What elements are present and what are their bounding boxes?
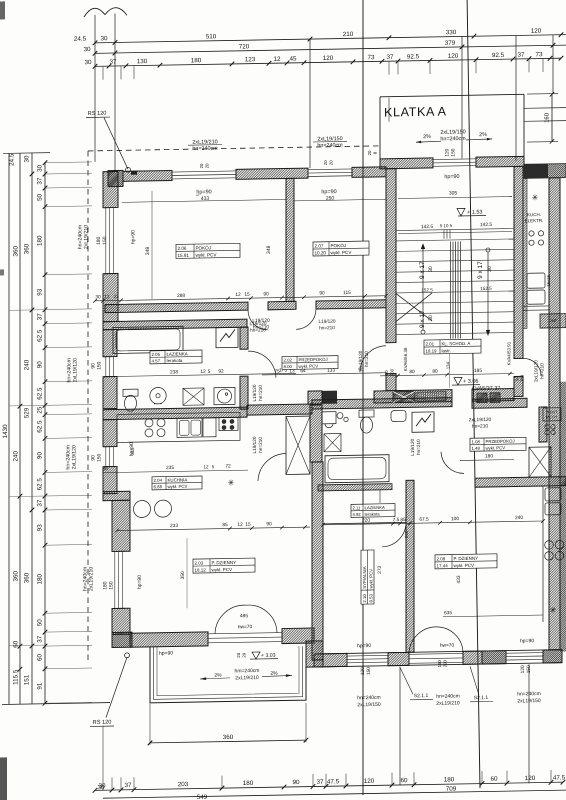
svg-text:73: 73 [535, 51, 543, 58]
svg-text:80: 80 [432, 369, 438, 375]
svg-text:1.08: 1.08 [471, 439, 480, 444]
RS 120 bottom label [90, 653, 129, 792]
svg-text:L19/120: L19/120 [319, 319, 336, 324]
svg-text:9 x 17: 9 x 17 [419, 261, 426, 279]
svg-text:25: 25 [37, 406, 44, 414]
svg-text:115: 115 [343, 290, 351, 296]
svg-text:150: 150 [97, 361, 103, 370]
svg-text:2.09: 2.09 [437, 556, 446, 561]
window left L2 [104, 356, 116, 376]
left exterior wall seg C [103, 329, 117, 356]
stair treads [396, 229, 514, 335]
washbasin 2.05 [150, 387, 166, 404]
svg-text:L19/120: L19/120 [252, 318, 270, 324]
svg-text:2xL19/120: 2xL19/120 [73, 358, 79, 382]
left exterior wall seg E [103, 419, 117, 446]
svg-text:120: 120 [531, 28, 542, 35]
svg-text:2.05: 2.05 [152, 352, 161, 357]
room label 2.06 POKOJ [176, 243, 240, 258]
bathroom label 2.05 [150, 350, 202, 364]
svg-text:150: 150 [109, 581, 115, 590]
svg-text:180: 180 [485, 453, 493, 459]
balcony labels [200, 667, 292, 682]
svg-text:152.5: 152.5 [421, 287, 433, 292]
svg-text:360: 360 [223, 734, 234, 741]
window left L4 [113, 551, 125, 608]
svg-text:12: 12 [200, 369, 206, 375]
svg-text:360: 360 [24, 243, 31, 254]
doors from corridor to rooms [248, 309, 336, 333]
svg-text:350: 350 [180, 571, 186, 579]
bottom wall left segment [130, 632, 208, 647]
left dim labels col4 [37, 164, 44, 689]
bottom wall continuous edges [314, 650, 562, 654]
appliance grid 2.04 [219, 417, 238, 430]
stairwell right wall [514, 166, 523, 358]
dark duct box [322, 391, 337, 404]
lower interior dim line [321, 515, 545, 527]
svg-text:hn=210: hn=210 [540, 363, 545, 379]
left window labels 90/150 (kitchen) [91, 442, 135, 462]
svg-text:WENT.: WENT. [546, 410, 558, 414]
svg-text:hp=90: hp=90 [196, 189, 211, 195]
right apt lower wall [475, 477, 566, 488]
svg-text:20: 20 [323, 160, 328, 165]
small 20/20 marks [199, 150, 377, 169]
svg-text:23: 23 [113, 294, 119, 300]
dimension row 1 (top) [74, 27, 566, 45]
svg-text:93: 93 [37, 288, 44, 296]
svg-text:150: 150 [102, 236, 108, 245]
room label 2.07 POKOJ [313, 241, 369, 256]
left window labels 90/150 (bath) [91, 361, 103, 370]
svg-text:8.53: 8.53 [369, 593, 374, 602]
hatch block right mid [540, 314, 566, 328]
right kitchen strip (upper apt) [523, 193, 551, 310]
svg-text:100: 100 [451, 516, 459, 522]
svg-text:12: 12 [237, 522, 243, 528]
bathtub 2.05 [113, 326, 183, 353]
svg-text:30: 30 [83, 46, 91, 53]
SZ1.1 boxes [477, 393, 487, 403]
left lintel annotations [66, 225, 95, 592]
svg-text:wykł. PCV: wykł. PCV [299, 364, 319, 369]
svg-text:37: 37 [316, 779, 324, 786]
svg-text:485: 485 [240, 613, 248, 619]
svg-text:330: 330 [446, 29, 457, 36]
svg-text:510: 510 [206, 33, 217, 40]
svg-text:2xL19/150: 2xL19/150 [440, 129, 465, 135]
hp=90 250 under window W2 [294, 188, 386, 202]
svg-text:hp=90: hp=90 [131, 230, 137, 244]
svg-text:238: 238 [170, 369, 178, 375]
svg-text:ŁAZIENKA: ŁAZIENKA [167, 351, 188, 356]
svg-text:142.5: 142.5 [421, 224, 433, 230]
svg-text:20: 20 [199, 163, 204, 168]
svg-text:62.5: 62.5 [37, 329, 44, 342]
svg-text:2.04: 2.04 [154, 478, 163, 483]
bottom wall pier 2 [482, 651, 506, 664]
svg-text:2xL19/210: 2xL19/210 [235, 675, 259, 681]
svg-text:hp=90: hp=90 [357, 643, 371, 649]
svg-text:90: 90 [91, 363, 97, 369]
svg-text:S2.1.1: S2.1.1 [474, 695, 489, 701]
stair walk lines with arrows [421, 242, 490, 337]
interior dim verticals rooms [145, 189, 272, 299]
svg-text:hw=70: hw=70 [440, 643, 455, 649]
svg-text:47.5: 47.5 [553, 774, 566, 781]
left exterior wall seg D [103, 376, 117, 408]
svg-text:2xL19/210: 2xL19/210 [436, 700, 460, 706]
french door sills (2.09 balcony door) [409, 653, 463, 663]
svg-text:2.06: 2.06 [178, 246, 187, 251]
svg-text:RS 120: RS 120 [93, 720, 112, 726]
svg-text:185: 185 [474, 368, 482, 374]
svg-text:ELEKTR.: ELEKTR. [525, 218, 544, 223]
svg-text:hn=240cm: hn=240cm [317, 142, 343, 148]
stair central stringer [451, 241, 461, 338]
stairwell window [433, 157, 476, 168]
svg-text:75: 75 [274, 369, 280, 375]
svg-text:hn=240cm: hn=240cm [440, 136, 466, 142]
svg-text:273: 273 [377, 565, 383, 573]
svg-text:20: 20 [367, 150, 372, 155]
svg-text:KUCH.: KUCH. [527, 212, 541, 217]
right exterior wall [549, 178, 560, 650]
svg-text:120: 120 [520, 665, 526, 673]
svg-text:60: 60 [490, 776, 498, 783]
svg-text:240: 240 [13, 450, 20, 461]
stair flight labels 9x17 [419, 260, 493, 328]
svg-text:24.5: 24.5 [74, 36, 87, 43]
svg-text:215: 215 [130, 447, 135, 455]
svg-text:151: 151 [24, 674, 31, 685]
top exterior wall segment 3 [352, 167, 386, 178]
svg-text:93: 93 [37, 524, 44, 532]
svg-text:L19/120: L19/120 [252, 384, 257, 401]
svg-text:10.20: 10.20 [315, 250, 327, 255]
svg-text:50: 50 [37, 619, 44, 627]
svg-text:wykł. PCV: wykł. PCV [454, 563, 475, 568]
svg-text:210: 210 [343, 31, 354, 38]
svg-text:15: 15 [245, 522, 251, 528]
svg-text:KVA4/53.91: KVA4/53.91 [507, 341, 512, 365]
svg-text:2xL19/150: 2xL19/150 [357, 702, 381, 708]
kitchen label 2.04 [152, 476, 202, 490]
svg-text:wykł. PCV: wykł. PCV [212, 567, 233, 572]
svg-text:2xL19/210: 2xL19/210 [84, 225, 90, 249]
svg-text:4.57: 4.57 [152, 358, 161, 363]
svg-text:18.12: 18.12 [195, 567, 207, 572]
svg-text:120: 120 [323, 55, 334, 62]
svg-text:terakota: terakota [167, 358, 183, 363]
svg-text:72: 72 [225, 463, 231, 469]
svg-text:45: 45 [289, 56, 297, 63]
lintel label right hall [469, 417, 492, 430]
svg-text:30: 30 [428, 266, 434, 272]
interior dim line upper rooms [93, 289, 388, 302]
sypialnia right wall [406, 480, 414, 652]
svg-text:hn=240cm: hn=240cm [357, 695, 380, 701]
svg-text:hn=240cm: hn=240cm [192, 146, 218, 152]
svg-text:KUCHNIA: KUCHNIA [168, 477, 188, 482]
electrical box right [412, 412, 434, 432]
svg-text:60: 60 [13, 640, 20, 648]
svg-text:12: 12 [104, 294, 110, 300]
wall below bathtub [318, 484, 392, 504]
left exterior wall seg G (lower) [112, 500, 130, 551]
window left L3 [104, 446, 116, 466]
left wall step jog [103, 491, 130, 500]
svg-text:2.03: 2.03 [195, 561, 204, 566]
scan edge artifacts [0, 1, 7, 800]
svg-text:20: 20 [205, 163, 210, 168]
svg-text:120: 120 [445, 148, 451, 156]
corridor label 2.02 [282, 356, 338, 370]
svg-text:2.02: 2.02 [284, 357, 293, 362]
right apartment top wall dark block [524, 164, 566, 179]
svg-text:233: 233 [170, 523, 178, 529]
stairwell left wall [386, 169, 396, 343]
svg-text:2xL19/150: 2xL19/150 [517, 698, 541, 704]
svg-text:80: 80 [409, 369, 415, 375]
lintel label 2xL19/210 [188, 139, 222, 152]
svg-text:9 x 17: 9 x 17 [477, 261, 484, 279]
svg-text:S2.1.1: S2.1.1 [414, 693, 429, 699]
svg-text:180: 180 [37, 573, 44, 584]
svg-text:67.5: 67.5 [419, 517, 429, 523]
right apt inner wall (kitchen strip) [523, 178, 527, 328]
stair door to right apartment [515, 358, 545, 382]
living label 2.09 [435, 554, 497, 569]
bottom wall pier 1 [388, 652, 409, 665]
svg-text:433: 433 [456, 575, 462, 583]
svg-text:200: 200 [443, 659, 448, 667]
corridor wall seg2 [268, 301, 296, 309]
svg-text:✳: ✳ [532, 193, 539, 202]
svg-text:348: 348 [145, 246, 151, 255]
shower tray [324, 434, 341, 452]
svg-text:hn=210: hn=210 [319, 325, 335, 330]
small basin right hall [391, 410, 406, 421]
svg-text:PRZEDPOKÓJ: PRZEDPOKÓJ [299, 357, 328, 363]
svg-text:L19/120: L19/120 [358, 350, 363, 367]
bathtub 2.11 [325, 455, 389, 483]
svg-text:✳: ✳ [228, 478, 235, 487]
svg-text:30: 30 [428, 315, 434, 321]
stove 2.04 [145, 419, 165, 437]
left exterior wall seg H [112, 608, 130, 634]
bathroom top wall [103, 319, 247, 330]
svg-text:PRZEDPOKÓJ: PRZEDPOKÓJ [486, 439, 515, 445]
svg-text:L19/120: L19/120 [410, 438, 415, 455]
top exterior wall segment 2 [236, 168, 308, 179]
balcony 360 dim [148, 733, 309, 746]
svg-text:KVA5/37.37: KVA5/37.37 [472, 386, 501, 393]
svg-text:5 10 5: 5 10 5 [440, 223, 453, 228]
svg-text:wykł. PCV: wykł. PCV [331, 250, 353, 255]
sypialnia partition + door [323, 522, 409, 548]
svg-text:hn=240cm: hn=240cm [517, 691, 540, 697]
svg-text:hp=90: hp=90 [321, 189, 336, 195]
svg-text:134: 134 [446, 361, 451, 369]
svg-text:15: 15 [244, 292, 250, 298]
mid dim line lower [323, 525, 406, 526]
left dim column lines [2, 152, 110, 705]
sink 2.04 (double bowl) [177, 418, 202, 437]
svg-text:240: 240 [24, 359, 31, 370]
left dim labels col1 [2, 153, 15, 438]
svg-text:180: 180 [191, 57, 202, 64]
stair small dims [398, 222, 512, 293]
svg-text:2.11: 2.11 [353, 505, 362, 510]
svg-text:2.01: 2.01 [426, 341, 435, 346]
svg-text:360: 360 [13, 245, 20, 256]
svg-text:24.5: 24.5 [9, 153, 16, 166]
level +3.03 [236, 652, 278, 660]
svg-text:18.19: 18.19 [426, 348, 438, 353]
dimension row 3 [84, 51, 563, 69]
corner hatch at bath wall [308, 391, 322, 404]
stairwell top wall right [476, 156, 524, 167]
svg-text:200: 200 [390, 368, 395, 376]
WC small circles [337, 412, 348, 421]
kitchen door arc [102, 436, 286, 484]
central party wall (left part) [103, 407, 247, 420]
svg-text:KLATKA A: KLATKA A [384, 104, 447, 119]
central wall mid segment [247, 404, 312, 415]
toilet 2.05 [123, 389, 138, 411]
svg-text:120: 120 [364, 778, 375, 785]
balcony door arcs 2.03 [215, 605, 277, 634]
bathroom door [248, 351, 276, 402]
svg-text:2.10: 2.10 [362, 594, 367, 603]
svg-text:130: 130 [137, 58, 148, 65]
svg-text:lastr.: lastr. [442, 348, 451, 353]
svg-text:60: 60 [37, 653, 44, 661]
under-stair cross [396, 292, 514, 322]
washer 2.04 [203, 418, 216, 437]
svg-text:20: 20 [236, 652, 241, 657]
svg-text:203: 203 [178, 781, 189, 788]
svg-text:9 x 17: 9 x 17 [419, 310, 426, 328]
svg-text:POKÓJ: POKÓJ [331, 242, 347, 248]
svg-text:1.48: 1.48 [471, 446, 480, 451]
french door sill lines (2.03 balcony door) [208, 633, 282, 643]
svg-text:200: 200 [520, 374, 525, 382]
svg-text:hn=210: hn=210 [364, 351, 369, 367]
svg-text:2xL19/120: 2xL19/120 [534, 360, 539, 382]
svg-text:12: 12 [273, 56, 281, 63]
svg-text:hm=240cm: hm=240cm [235, 668, 260, 674]
level mark +1.53 [457, 208, 486, 216]
svg-text:85: 85 [222, 522, 228, 528]
svg-text:47.5: 47.5 [327, 778, 340, 785]
svg-text:2xL19/120: 2xL19/120 [72, 445, 78, 469]
top exterior wall: corner block [108, 170, 123, 186]
level mark +3.06 [452, 377, 480, 385]
counter units next to bath [183, 387, 235, 405]
svg-text:635: 635 [444, 610, 452, 616]
corridor wall (rooms/hall) seg1 [105, 302, 248, 313]
left dim labels col2 [13, 245, 20, 685]
svg-text:2.07: 2.07 [315, 243, 324, 248]
svg-text:240: 240 [515, 515, 523, 521]
svg-text:92: 92 [218, 369, 224, 375]
svg-text:hn=210: hn=210 [253, 324, 269, 330]
svg-text:hp=90: hp=90 [520, 638, 534, 644]
svg-text:90: 90 [263, 291, 269, 297]
kitchen counter 2.04 [117, 412, 240, 442]
svg-text:2%: 2% [214, 673, 222, 679]
window bottom (2.09) [506, 651, 543, 662]
svg-text:+ 3.06: + 3.06 [463, 379, 478, 385]
svg-text:30: 30 [100, 35, 108, 42]
WC toilet [359, 410, 374, 433]
svg-text:235: 235 [166, 465, 174, 471]
svg-text:hn=210: hn=210 [472, 423, 488, 429]
shaft X right [529, 447, 551, 477]
svg-text:379: 379 [445, 40, 456, 47]
bottom window labels right [159, 638, 534, 680]
svg-text:37: 37 [386, 54, 394, 61]
partition 2.06/2.07 [286, 178, 294, 301]
svg-text:160: 160 [545, 112, 551, 123]
bottom extension lines [103, 664, 551, 791]
svg-text:37: 37 [37, 635, 44, 643]
svg-text:30: 30 [487, 266, 493, 272]
living dim line [115, 521, 310, 533]
paper break marks [84, 8, 127, 18]
160 dimension right of stair shaft [527, 92, 558, 144]
bottom wall pier 3 [543, 650, 562, 663]
bottom mid 2% arrows [215, 674, 217, 676]
svg-text:150: 150 [97, 453, 103, 462]
svg-text:2xL19/210: 2xL19/210 [89, 567, 95, 591]
electrical box 2.02 [216, 327, 238, 347]
svg-text:8.00: 8.00 [284, 364, 293, 369]
svg-text:90: 90 [319, 290, 325, 296]
svg-text:60: 60 [400, 777, 408, 784]
svg-text:133: 133 [327, 368, 335, 374]
svg-text:62.5: 62.5 [37, 478, 44, 491]
WC washbasin [322, 412, 336, 428]
lower mid vertical wall (bath/kitchen) [310, 405, 322, 462]
sypialnia dims [377, 565, 383, 573]
left window labels 180/150 (living) [103, 575, 143, 590]
left exterior wall seg F [103, 466, 117, 493]
svg-text:ŁAZIENKA: ŁAZIENKA [365, 505, 385, 510]
svg-text:549: 549 [197, 794, 208, 800]
svg-text:180: 180 [37, 235, 44, 246]
svg-text:90: 90 [292, 779, 300, 786]
svg-text:90: 90 [37, 451, 44, 459]
svg-text:150: 150 [451, 148, 457, 156]
lintel label 2xL19/150 [313, 136, 347, 149]
svg-text:2xL19/120: 2xL19/120 [469, 417, 492, 423]
svg-text:360: 360 [24, 572, 31, 583]
svg-text:12: 12 [235, 292, 241, 298]
svg-text:120: 120 [448, 53, 459, 60]
svg-text:123: 123 [245, 56, 256, 63]
svg-text:15.81: 15.81 [178, 253, 190, 258]
svg-text:180: 180 [243, 780, 254, 787]
2.03 interior vertical dim [180, 538, 187, 608]
WENT MECH box [543, 408, 561, 435]
shaft box (KVA6) [393, 391, 415, 402]
bottom dim row [93, 774, 566, 792]
bottom wall right seg 1 [314, 653, 347, 667]
